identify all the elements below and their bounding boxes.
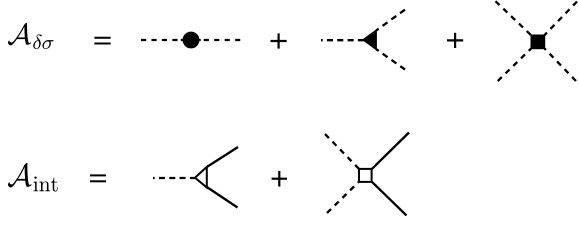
wire: dashed lower-right bbox=[376, 49, 405, 69]
wire: dashed upper-right ray bbox=[538, 2, 577, 42]
vertex: open triangle bbox=[195, 167, 207, 188]
wire: solid upper-right ray bbox=[365, 133, 409, 176]
wire: dashed lower-right ray bbox=[538, 42, 576, 81]
equals sign row2 bbox=[90, 175, 106, 181]
wire: solid lower-right ray bbox=[365, 175, 406, 215]
wire: dashed upper-right bbox=[376, 10, 405, 31]
wire: dashed horizontal bbox=[153, 177, 196, 179]
vertex: open square bbox=[359, 169, 372, 182]
equals sign row1 bbox=[94, 38, 110, 44]
plus sign row1 b bbox=[447, 33, 463, 48]
wire: solid lower-right bbox=[207, 187, 238, 208]
plus sign row2 bbox=[272, 171, 287, 187]
vertex: filled triangle bbox=[363, 30, 377, 50]
wire: dashed scalar line bbox=[141, 39, 240, 41]
label Ads bbox=[8, 23, 54, 49]
plus sign row1 a bbox=[271, 33, 287, 48]
wire: dashed horizontal bbox=[321, 39, 364, 41]
label Aint bbox=[8, 163, 58, 192]
wire: dashed upper-left ray bbox=[325, 134, 365, 175]
wire: dashed lower-left ray bbox=[327, 175, 365, 213]
wire: nub right of blob bbox=[199, 39, 201, 41]
blob: filled circle vertex bbox=[183, 32, 198, 47]
wire: solid upper-right bbox=[207, 147, 238, 167]
vertex: filled square bbox=[531, 35, 545, 49]
wire: dashed lower-left ray bbox=[498, 42, 538, 81]
wire: nub left of blob bbox=[181, 39, 183, 41]
wire: dashed upper-left ray bbox=[496, 1, 539, 42]
